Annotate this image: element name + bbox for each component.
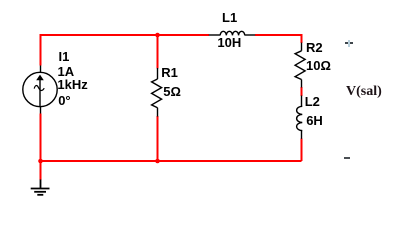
label I1 refdes: [59, 50, 70, 63]
node junction dot bottom of R1: [155, 159, 160, 164]
inductor L2: [297, 96, 303, 139]
wire middle vertical below R1: [157, 116, 159, 161]
wire right vertical between R2 and L2: [301, 87, 303, 96]
label L2 value 6H: [306, 114, 323, 127]
label R1 value 5ohm: [163, 85, 181, 98]
wire right vertical below L2: [301, 139, 303, 162]
label I1 phase 0deg: [58, 94, 70, 107]
node V(sal) output label: [346, 85, 382, 98]
wire ground stub: [40, 161, 42, 180]
resistor R2: [295, 43, 305, 88]
ground: [31, 180, 50, 195]
label R1 refdes: [161, 66, 178, 79]
node minus sign: [344, 157, 350, 159]
wire left vertical below source: [40, 114, 42, 162]
label R2 refdes: [306, 41, 323, 54]
node plus sign: [345, 42, 353, 44]
node junction dot bottom left: [38, 159, 43, 164]
inductor L1: [209, 31, 255, 35]
wire left vertical above source: [40, 35, 42, 66]
resistor R1: [152, 68, 162, 117]
label I1 frequency 1kHz: [57, 78, 87, 91]
wire top horizontal left of L1: [41, 35, 210, 36]
wire bottom horizontal: [41, 160, 302, 162]
label L1 value 10H: [217, 36, 241, 49]
label I1 value 1A: [58, 65, 75, 78]
label L1 refdes: [222, 11, 237, 24]
label R2 value 10ohm: [306, 59, 331, 72]
wire top horizontal right of L1: [255, 35, 302, 43]
wire middle vertical above R1: [157, 35, 159, 69]
label L2 refdes: [305, 95, 320, 108]
node junction dot top of R1: [155, 33, 160, 38]
current source I1: [23, 66, 57, 114]
